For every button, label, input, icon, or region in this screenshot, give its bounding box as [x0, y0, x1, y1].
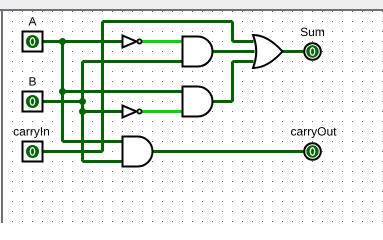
input pin B box: [23, 92, 43, 112]
label B: [29, 77, 35, 85]
OR gate U6 (3 inputs): [253, 35, 283, 68]
label carryOut: [291, 129, 296, 136]
pin Sum value text 0: [310, 48, 314, 56]
chrome: left border line: [1, 11, 3, 223]
output pin Sum circle: [304, 43, 321, 60]
pin B value text 0: [30, 98, 34, 106]
window chrome: top light strip: [0, 0, 383, 9]
pin Sum value disc: [306, 45, 318, 57]
pin carryIn value text 0: [30, 148, 34, 156]
wire NOT2 output (logic 1, bright): [142, 110, 183, 113]
input pin carryIn box: [23, 142, 43, 162]
pin carryOut value text 0: [310, 148, 314, 156]
label carryIn: [14, 129, 19, 136]
wire net carryIn: pin to x=102 up, across top y=21, down x=232 to OR top input: [43, 22, 254, 152]
junction dot (82,101): [79, 98, 86, 105]
pin A value disc: [26, 35, 39, 48]
AND gate U5 (carry, bottom): [123, 137, 153, 167]
wire net B: pin B, vertical x=82, to AND1 lower input, NOT2 input, AND3 lower input: [43, 62, 183, 162]
wire NOT1 output (logic 1, bright): [142, 40, 183, 43]
chrome: horizontal border line: [0, 9, 383, 11]
pin A value text 0: [30, 38, 34, 46]
NOT gate U2 bubble: [137, 109, 141, 113]
junction dot (62,91): [59, 88, 66, 95]
output pin carryOut circle: [304, 143, 321, 160]
wire AND3 output to carryOut pin: [153, 150, 304, 153]
NOT gate U1 bubble: [137, 39, 141, 43]
junction dot (82,111): [79, 108, 86, 115]
input pin A box: [23, 32, 43, 52]
NOT gate U2 (input B) triangle: [123, 106, 137, 118]
wire AND1 output to OR middle input: [213, 50, 255, 53]
AND gate U4 (A and B'): [183, 87, 213, 117]
wire OR output to Sum pin: [283, 50, 304, 53]
NOT gate U1 (input A) triangle: [123, 36, 137, 48]
wire AND2 output up x=232 to OR bottom input: [213, 62, 254, 102]
wire net A: pin A to NOT1, down to AND3 row, branch to AND2: [43, 42, 183, 142]
pin carryIn value disc: [26, 145, 39, 158]
pin carryOut value disc: [306, 145, 318, 157]
AND gate U3 (A' and B): [183, 37, 213, 67]
junction dot (62,41): [59, 38, 66, 45]
label Sum: [301, 28, 308, 36]
label A: [29, 17, 37, 25]
pin B value disc: [26, 95, 39, 108]
